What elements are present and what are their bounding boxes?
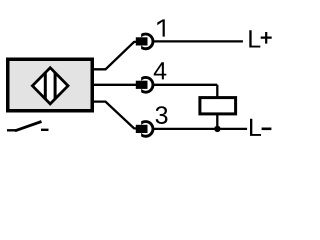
connector pin1 socket xyxy=(141,33,154,51)
connector pin4 plug xyxy=(136,81,148,89)
sensor diamond symbol xyxy=(32,68,68,104)
NO switch contact actuator xyxy=(15,122,42,131)
label pin 4 xyxy=(154,62,167,79)
connector pin1 plug xyxy=(136,37,148,45)
NO switch contact right lead xyxy=(41,129,49,131)
diamond left chord xyxy=(44,72,47,99)
label L+ : plus sign xyxy=(261,32,272,44)
junction dot xyxy=(214,126,220,132)
wire pin3 to L- xyxy=(152,128,247,130)
label L- : letter L xyxy=(250,119,261,136)
NO switch contact left lead xyxy=(7,129,16,131)
load resistor xyxy=(200,98,236,114)
diamond right chord xyxy=(54,72,57,99)
wire pin1 to L+ xyxy=(152,40,243,42)
wire pin3 from box xyxy=(94,102,140,129)
sensor body box xyxy=(8,59,93,111)
wire pin4 from box xyxy=(94,84,140,86)
connector pin3 socket xyxy=(141,120,154,138)
wire pin4 to load xyxy=(152,84,217,86)
wire load drop top xyxy=(216,85,218,98)
wire load drop bottom xyxy=(216,114,218,129)
label pin 3 xyxy=(156,106,168,124)
label L- : minus sign xyxy=(262,128,272,131)
label pin 1 xyxy=(157,19,165,36)
label L+ : letter L xyxy=(249,30,260,47)
wire pin1 from box xyxy=(94,41,140,69)
connector pin4 socket xyxy=(141,76,154,94)
connector pin3 plug xyxy=(136,125,148,133)
